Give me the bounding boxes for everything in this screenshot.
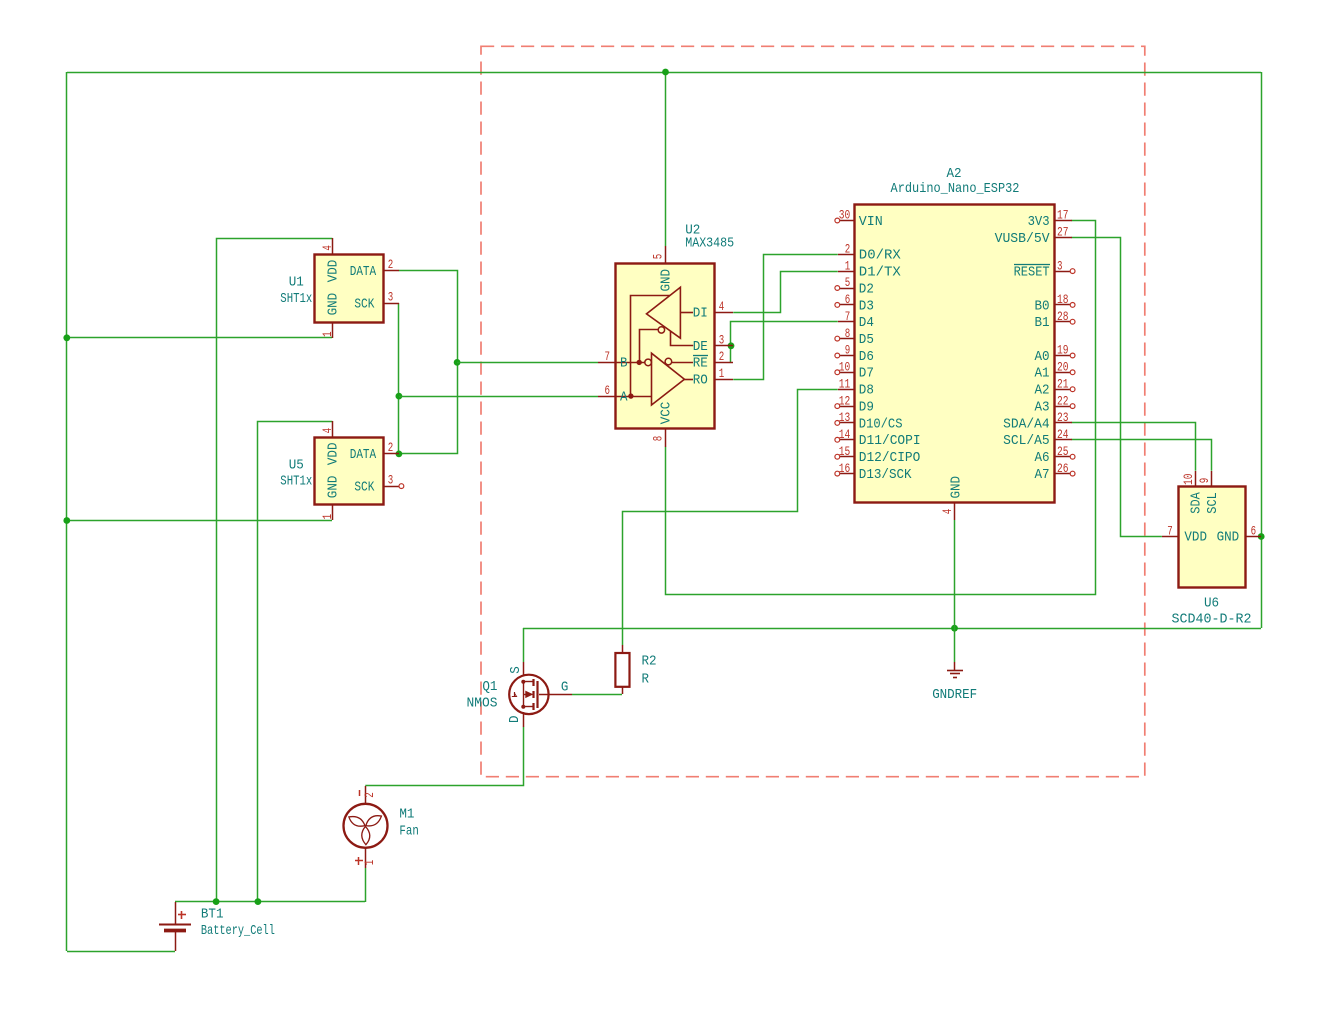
A2 pin 23 (SDA/A4) stub	[1055, 422, 1072, 424]
svg-text:6: 6	[845, 292, 851, 307]
svg-text:2: 2	[845, 241, 851, 256]
svg-text:D: D	[508, 716, 523, 724]
svg-text:10: 10	[1181, 474, 1196, 486]
wire B to U2 pin7	[457, 362, 598, 364]
svg-text:D12/CIPO: D12/CIPO	[859, 451, 921, 466]
svg-text:15: 15	[839, 444, 851, 459]
svg-text:RESET: RESET	[1014, 266, 1050, 281]
junction dot DE tap	[728, 342, 735, 349]
svg-text:SDA: SDA	[1190, 491, 1205, 513]
svg-text:U6: U6	[1204, 596, 1219, 611]
svg-text:VDD: VDD	[327, 443, 342, 466]
svg-text:GND: GND	[949, 476, 964, 499]
svg-text:1: 1	[320, 514, 335, 520]
svg-text:A2: A2	[946, 167, 961, 182]
svg-text:3: 3	[388, 290, 394, 305]
svg-text:6: 6	[604, 383, 610, 398]
ground GNDREF stub	[954, 662, 956, 670]
svg-text:D13/SCK: D13/SCK	[859, 468, 913, 483]
svg-text:14: 14	[839, 427, 851, 442]
svg-text:27: 27	[1057, 225, 1069, 240]
svg-text:DATA: DATA	[350, 265, 377, 280]
ground GNDREF bars	[947, 670, 963, 672]
U6 pin 7 (VDD left)	[1162, 536, 1178, 538]
wire GND horizontal (Q1 source rail)	[523, 628, 1261, 630]
svg-text:24: 24	[1057, 427, 1069, 442]
svg-text:3: 3	[1057, 258, 1063, 273]
svg-text:NMOS: NMOS	[467, 697, 498, 712]
sensor U5 body	[315, 438, 384, 505]
svg-text:D1/TX: D1/TX	[859, 266, 901, 281]
U5 pin 1 (GND bottom)	[332, 505, 334, 520]
svg-text:10: 10	[839, 360, 851, 375]
svg-text:D10/CS: D10/CS	[859, 417, 903, 432]
wire U2 GND drop	[665, 72, 667, 246]
svg-text:1: 1	[845, 258, 851, 273]
wire U1 GND	[67, 337, 332, 339]
U2 pin 1 (RO)	[715, 379, 733, 381]
wire GND top rail	[67, 72, 1261, 74]
svg-text:19: 19	[1057, 343, 1069, 358]
svg-text:7: 7	[604, 349, 610, 364]
U6 pin 10 (SDA top)	[1195, 471, 1197, 486]
U2 internal junction dot B	[637, 360, 642, 365]
U1 pin 2 (DATA)	[383, 270, 399, 272]
svg-text:D7: D7	[859, 367, 874, 382]
svg-text:R: R	[642, 673, 650, 688]
wire U2 VCC to A2 3V3	[666, 221, 1096, 595]
A2 pin 4 (GND bottom) stub	[954, 502, 956, 520]
Q1 drain pin (bottom)	[523, 712, 525, 727]
battery BT1 top pin	[175, 902, 177, 924]
svg-text:16: 16	[839, 461, 851, 476]
A2 RESET overline	[1014, 264, 1050, 266]
A2 pin 13 (D10/CS) stub	[840, 422, 855, 424]
U2 driver inverted output bubble	[658, 327, 664, 333]
svg-text:12: 12	[839, 393, 851, 408]
A2 pin 16 (D13/SCK) stub	[840, 473, 855, 475]
svg-text:SCL: SCL	[1206, 492, 1221, 514]
junction dot GNDREF crossing	[951, 625, 958, 632]
svg-text:Arduino_Nano_ESP32: Arduino_Nano_ESP32	[891, 182, 1020, 197]
Q1 body vertical	[523, 682, 525, 707]
svg-text:D6: D6	[859, 350, 874, 365]
svg-text:8: 8	[650, 436, 665, 442]
R2 top pin	[622, 645, 624, 653]
U2 driver DI input line	[680, 312, 693, 314]
junction dot right rail / U6 GND	[1258, 533, 1265, 540]
svg-text:G: G	[561, 680, 569, 695]
svg-text:7: 7	[1167, 523, 1173, 538]
wire A2 VUSB/5V to U6 VDD	[1072, 238, 1162, 537]
A2 pin 21 (A2) stub	[1055, 389, 1070, 391]
wire A2 D4 to U2 DE/RE	[731, 322, 838, 363]
A2 pin 28 (B1) stub	[1055, 321, 1070, 323]
svg-text:11: 11	[839, 376, 851, 391]
A2 pin 8 (D5) stub	[840, 338, 855, 340]
A2 pin 2 (D0/RX) stub	[838, 254, 855, 256]
A2 pin 5 (D2) stub	[840, 288, 855, 290]
svg-text:21: 21	[1057, 376, 1069, 391]
svg-text:D2: D2	[859, 282, 874, 297]
wire Q1 gate to R2	[572, 694, 622, 696]
wire M1 pin1 riser	[365, 868, 367, 902]
A2 pin 11 (D8) stub	[838, 389, 855, 391]
M1 pin 2 (top)	[365, 786, 367, 804]
svg-text:Battery_Cell: Battery_Cell	[201, 924, 275, 939]
U2 RE overline	[693, 355, 708, 357]
U2 receiver B input line	[616, 362, 645, 364]
svg-text:8: 8	[845, 326, 851, 341]
wire SDA/A4 to U6 SDA	[1072, 423, 1196, 471]
Q1 source connect	[523, 681, 533, 683]
wire GND right rail	[1261, 72, 1263, 628]
A2 pin 10 (D7) stub	[840, 372, 855, 374]
wire GND bottom-left to BT1-	[67, 951, 175, 953]
svg-text:2: 2	[388, 257, 394, 272]
svg-text:GNDREF: GNDREF	[932, 688, 977, 703]
svg-text:GND: GND	[327, 476, 342, 499]
svg-text:BT1: BT1	[201, 908, 224, 923]
svg-text:DI: DI	[693, 306, 708, 321]
wire SCL/A5 to U6 SCL	[1072, 440, 1212, 471]
Q1 gate bar	[536, 681, 538, 708]
junction dot batt rail / U5 VDD	[255, 898, 262, 905]
M1 pin 2 polarity (-)	[359, 790, 361, 796]
svg-text:4: 4	[719, 299, 725, 314]
svg-text:D9: D9	[859, 401, 874, 416]
M1 fan blades	[362, 826, 370, 844]
svg-text:1: 1	[719, 366, 725, 381]
svg-text:30: 30	[839, 208, 851, 223]
svg-text:GND: GND	[660, 269, 675, 292]
svg-text:D5: D5	[859, 333, 874, 348]
svg-text:DE: DE	[693, 340, 708, 355]
wire R2 top to A2 D8	[623, 390, 838, 646]
svg-text:3: 3	[719, 333, 725, 348]
A2 pin 17 (3V3) stub	[1055, 220, 1072, 222]
svg-text:28: 28	[1057, 309, 1069, 324]
wire GNDREF vertical (A2 GND to symbol)	[954, 520, 956, 662]
M1 pin 1 polarity (+)	[355, 860, 363, 862]
svg-text:SHT1x: SHT1x	[280, 475, 312, 490]
A2 pin 9 (D6) stub	[840, 355, 855, 357]
svg-text:22: 22	[1057, 393, 1069, 408]
junction dot left rail / U5 GND	[63, 517, 70, 524]
svg-text:4: 4	[940, 509, 955, 515]
svg-text:GND: GND	[327, 293, 342, 316]
svg-text:SHT1x: SHT1x	[280, 292, 312, 307]
A2 pin 30 (VIN) stub	[840, 220, 855, 222]
junction dot left rail / U1 GND	[63, 334, 70, 341]
U2 driver Z output line	[640, 330, 659, 363]
svg-text:6: 6	[1251, 523, 1257, 538]
U6 pin 6 (GND right)	[1246, 536, 1261, 538]
wire Q1 source riser	[523, 628, 525, 662]
U2 internal junction dot A	[628, 393, 633, 398]
Q1 gate pin (right)	[539, 694, 572, 696]
U2 receiver B input bubble	[645, 359, 652, 366]
svg-text:VDD: VDD	[327, 260, 342, 283]
svg-text:A1: A1	[1035, 367, 1050, 382]
U2 pin 7 (B)	[598, 362, 616, 364]
A2 pin 15 (D12/CIPO) stub	[840, 456, 855, 458]
svg-text:A3: A3	[1035, 401, 1050, 416]
A2 pin 7 (D4) stub	[838, 321, 855, 323]
A2 pin 25 (A6) stub	[1055, 456, 1070, 458]
svg-text:M1: M1	[399, 807, 414, 822]
A2 pin 12 (D9) stub	[840, 406, 855, 408]
U1 pin 4 (VDD top)	[332, 238, 334, 254]
U2 driver triangle	[647, 287, 681, 338]
svg-text:9: 9	[1197, 478, 1212, 484]
wire M1 pin2 to Q1 drain	[365, 727, 523, 786]
svg-text:Q1: Q1	[482, 680, 497, 695]
U2 pin 6 (A)	[598, 396, 616, 398]
svg-text:D4: D4	[859, 316, 874, 331]
Q1 body connect	[523, 694, 526, 696]
svg-text:25: 25	[1057, 444, 1069, 459]
svg-text:13: 13	[839, 410, 851, 425]
U2 driver Y output line	[631, 296, 670, 397]
A2 pin 1 (D1/TX) stub	[838, 271, 855, 273]
A2 pin 3 (RESET) stub	[1055, 271, 1070, 273]
A2 pin 19 (A0) stub	[1055, 355, 1070, 357]
mcu A2 body	[855, 205, 1055, 503]
junction dot B tap	[454, 359, 461, 366]
svg-text:A2: A2	[1035, 384, 1050, 399]
A2 pin 18 (B0) stub	[1055, 304, 1070, 306]
svg-text:1: 1	[320, 331, 335, 337]
svg-text:A: A	[620, 390, 628, 405]
junction dot batt rail / U1 VDD	[213, 898, 220, 905]
svg-text:5: 5	[650, 254, 665, 260]
svg-text:2: 2	[388, 440, 394, 455]
U2 receiver A input line	[616, 396, 652, 398]
svg-text:SCK: SCK	[354, 298, 375, 313]
A2 pin 20 (A1) stub	[1055, 372, 1070, 374]
BT1 positive plate	[159, 924, 191, 926]
ic U2 body	[616, 264, 715, 429]
R2 bottom pin	[622, 687, 624, 694]
U6 pin 9 (SCL top)	[1211, 471, 1213, 486]
U2 receiver enable bubble (RE)	[665, 358, 672, 365]
svg-text:18: 18	[1057, 292, 1069, 307]
A2 pin 6 (D3) stub	[840, 304, 855, 306]
motor M1 body circle	[344, 804, 388, 848]
svg-text:RO: RO	[693, 374, 708, 389]
A2 pin 22 (A3) stub	[1055, 406, 1070, 408]
svg-text:R2: R2	[642, 655, 657, 670]
svg-text:3V3: 3V3	[1028, 215, 1050, 230]
svg-text:A7: A7	[1035, 468, 1050, 483]
svg-text:RE: RE	[693, 357, 708, 372]
U2 pin 2 (RE)	[715, 362, 733, 364]
Q1 substrate diode mark	[514, 692, 516, 697]
svg-text:4: 4	[320, 428, 335, 434]
U1 pin 1 (GND bottom)	[332, 322, 334, 338]
Q1 connection dots	[521, 680, 525, 684]
BT1 bottom pin	[175, 932, 177, 951]
U2 driver enable line (DE)	[671, 331, 694, 345]
junction dot top rail / U2 GND	[662, 69, 669, 76]
U2 receiver RO output line	[684, 379, 693, 381]
A2 pin 24 (SCL/A5) stub	[1055, 439, 1072, 441]
svg-text:2: 2	[719, 349, 725, 364]
svg-text:SDA/A4: SDA/A4	[1003, 417, 1050, 432]
svg-text:D8: D8	[859, 384, 874, 399]
transistor Q1 body circle	[509, 675, 548, 714]
wire U1 SCK vertical	[398, 303, 400, 454]
U5 pin 4 (VDD top)	[332, 421, 334, 437]
svg-text:A6: A6	[1035, 451, 1050, 466]
svg-text:VIN: VIN	[859, 215, 883, 230]
Q1 channel segments	[532, 679, 534, 686]
M1 pin 1 (bottom)	[365, 848, 367, 868]
svg-text:20: 20	[1057, 360, 1069, 375]
wire GND left rail	[66, 72, 68, 951]
wire U5 VDD drop	[258, 422, 333, 902]
sensor U1 body	[315, 255, 384, 323]
svg-text:4: 4	[320, 245, 335, 251]
svg-text:D3: D3	[859, 299, 874, 314]
wire battery positive rail	[175, 901, 365, 903]
svg-text:GND: GND	[1217, 531, 1240, 546]
svg-text:S: S	[509, 666, 524, 674]
resistor R2 body	[615, 653, 629, 687]
junction dot U5 DATA node	[396, 451, 403, 458]
svg-text:U1: U1	[289, 276, 304, 291]
svg-text:SCK: SCK	[354, 480, 375, 495]
svg-text:9: 9	[845, 343, 851, 358]
U1 pin 3 (SCK)	[383, 303, 399, 305]
U2 pin 3 (DE)	[715, 345, 733, 347]
U5 pin 2 (DATA)	[383, 453, 399, 455]
svg-text:B1: B1	[1035, 316, 1050, 331]
Q1 drain connect	[523, 706, 533, 708]
A2 pin 27 (VUSB/5V) stub	[1055, 237, 1072, 239]
wire U1 VDD drop	[217, 239, 333, 902]
A2 pin 14 (D11/COPI) stub	[840, 439, 855, 441]
svg-text:Fan: Fan	[399, 825, 418, 840]
svg-text:7: 7	[845, 309, 851, 324]
svg-text:VCC: VCC	[660, 402, 675, 425]
svg-text:DATA: DATA	[350, 448, 377, 463]
ic U6 body	[1179, 487, 1246, 588]
Q1 source pin (top)	[523, 662, 525, 676]
svg-text:5: 5	[845, 275, 851, 290]
U2 receiver enable line	[672, 362, 693, 364]
svg-text:VDD: VDD	[1184, 531, 1207, 546]
U2 receiver triangle	[652, 353, 685, 405]
svg-text:2: 2	[362, 792, 377, 798]
svg-text:3: 3	[388, 472, 394, 487]
wire U1 DATA / U5 DATA bus	[399, 271, 458, 454]
U2 pin 8 (VCC bottom)	[665, 429, 667, 447]
Q1 body arrow	[526, 691, 532, 697]
junction dot A tap	[396, 393, 403, 400]
svg-text:U5: U5	[289, 458, 304, 473]
dashed graphic box (power section outline)	[481, 46, 1145, 776]
svg-text:B: B	[620, 357, 628, 372]
svg-text:VUSB/5V: VUSB/5V	[995, 232, 1051, 247]
svg-text:23: 23	[1057, 410, 1069, 425]
svg-text:17: 17	[1057, 208, 1069, 223]
A2 pin 26 (A7) stub	[1055, 473, 1070, 475]
svg-text:SCL/A5: SCL/A5	[1003, 434, 1050, 449]
U2 pin 4 (DI)	[715, 312, 733, 314]
svg-text:26: 26	[1057, 461, 1069, 476]
wire U5 GND	[67, 520, 332, 522]
svg-text:D11/COPI: D11/COPI	[859, 434, 921, 449]
U5 pin 3 (SCK, unconnected)	[383, 486, 399, 488]
BT1 polarity (+)	[178, 914, 186, 916]
BT1 negative plate	[164, 929, 186, 933]
svg-text:1: 1	[362, 860, 377, 866]
svg-text:MAX3485: MAX3485	[685, 236, 734, 251]
svg-text:D0/RX: D0/RX	[859, 249, 901, 264]
wire A to U2 pin6	[399, 396, 598, 398]
svg-text:A0: A0	[1035, 350, 1050, 365]
svg-text:SCD40-D-R2: SCD40-D-R2	[1172, 612, 1252, 627]
wire A2 D1/TX to U2 DI	[733, 272, 838, 313]
U2 pin 5 (GND top)	[665, 246, 667, 263]
wire A2 D0/RX to U2 RO	[733, 255, 838, 380]
svg-text:B0: B0	[1035, 299, 1050, 314]
